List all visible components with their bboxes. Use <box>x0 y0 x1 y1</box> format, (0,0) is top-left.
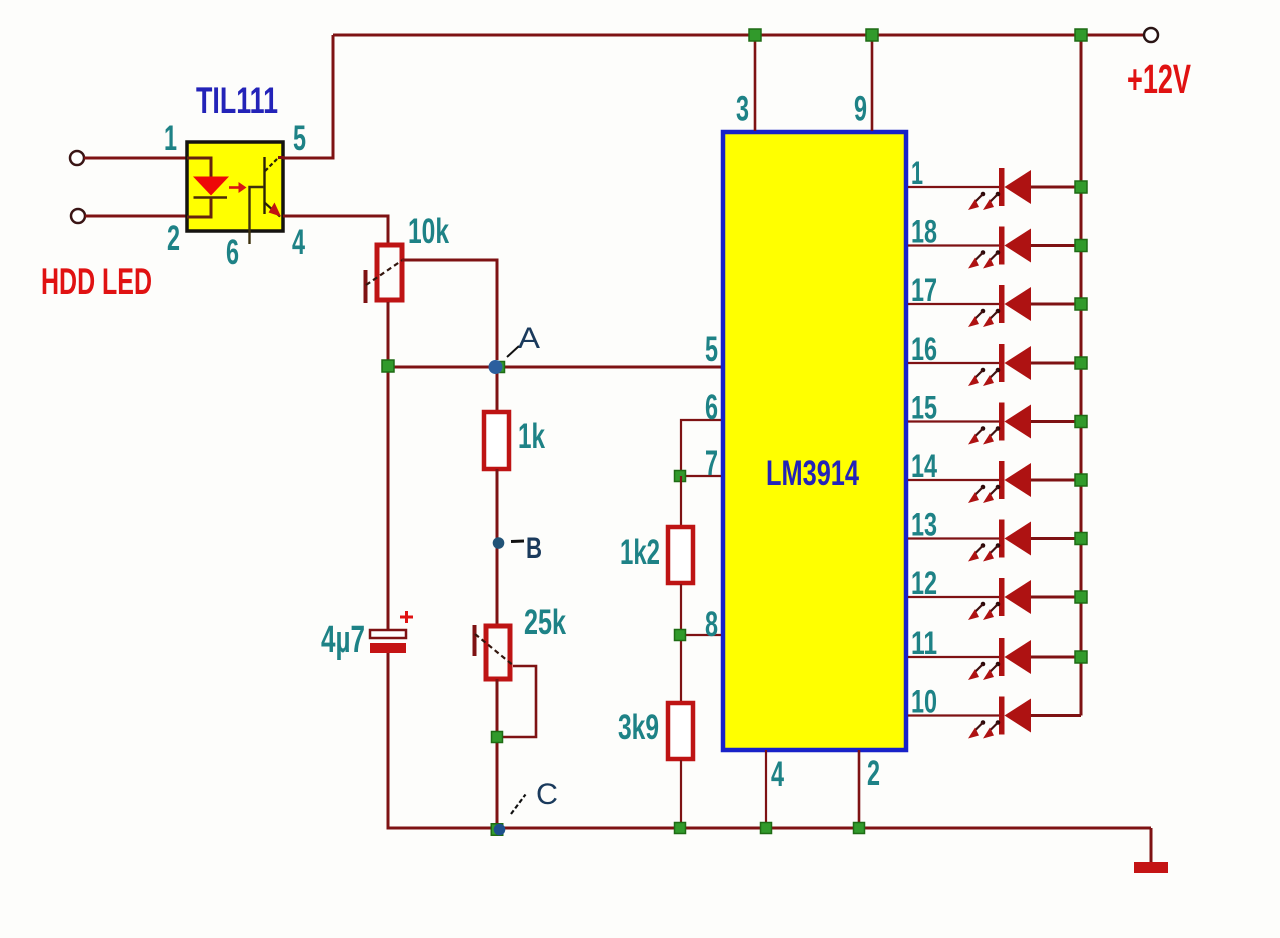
leader node C <box>511 795 526 815</box>
wire pin1 <box>84 157 189 160</box>
svg-text:4µ7: 4µ7 <box>321 619 365 661</box>
wire ground drop <box>1150 828 1153 863</box>
svg-text:1: 1 <box>911 155 923 191</box>
svg-text:10k: 10k <box>408 212 449 251</box>
junction rail LED 15 <box>1075 416 1087 428</box>
wire 1k to 25k <box>496 469 499 626</box>
junction pin 3 rail <box>749 29 761 41</box>
wire 3k9 to ground rail <box>680 760 682 830</box>
wire ground rail <box>388 827 1151 830</box>
wire pin 3 <box>754 35 757 131</box>
LED D1 <box>908 168 1081 210</box>
svg-text:14: 14 <box>911 448 937 484</box>
svg-text:TIL111: TIL111 <box>196 80 278 121</box>
svg-text:C: C <box>536 778 558 811</box>
wire pin 4 <box>765 750 767 830</box>
svg-text:6: 6 <box>226 233 239 272</box>
junction rail LED 12 <box>1075 591 1087 603</box>
wire 25k wiper bypass <box>503 666 536 737</box>
junction rail at pin 2 <box>854 823 865 834</box>
op-to-coupler U1 TIL111 <box>187 142 284 244</box>
junction rail LED 1 <box>1075 181 1087 193</box>
resistor R4 1k2 <box>668 527 693 583</box>
junction 25k bypass <box>492 732 503 743</box>
svg-text:18: 18 <box>911 214 937 250</box>
junction rail LED 16 <box>1075 357 1087 369</box>
wire pin7 down to 1k2 <box>680 476 682 526</box>
LED D7 <box>908 520 1081 562</box>
wire left vertical upper <box>387 302 390 630</box>
junction rail LED 17 <box>1075 298 1087 310</box>
svg-text:4: 4 <box>292 223 305 262</box>
wire opto pin5 to rail <box>283 35 333 158</box>
wire A down to 1k <box>496 367 499 412</box>
LED D5 <box>908 403 1081 445</box>
svg-text:2: 2 <box>167 219 180 258</box>
wire pin 2 <box>858 750 861 830</box>
wire pot wiper to node A <box>402 260 497 360</box>
svg-text:7: 7 <box>705 444 718 483</box>
resistor R5 3k9 <box>668 703 693 759</box>
node B <box>493 537 505 549</box>
svg-text:5: 5 <box>705 330 718 369</box>
junction rail top <box>1075 29 1087 41</box>
leader node B <box>511 540 524 544</box>
svg-text:25k: 25k <box>524 603 566 642</box>
LED D8 <box>908 578 1081 620</box>
svg-text:16: 16 <box>911 331 937 367</box>
svg-text:A: A <box>518 322 540 355</box>
svg-text:11: 11 <box>911 625 937 661</box>
LED D4 <box>908 344 1081 386</box>
svg-text:10: 10 <box>911 684 937 720</box>
wire opto pin4 to pot <box>283 216 388 243</box>
junction rail at 3k9 <box>675 823 686 834</box>
wire pin2 <box>85 215 189 218</box>
svg-text:2: 2 <box>867 754 880 793</box>
wire left vertical lower <box>387 653 390 830</box>
junction rail LED 18 <box>1075 240 1087 252</box>
op-amp U2 LM3914 body <box>723 132 906 750</box>
ground <box>1134 862 1168 873</box>
svg-text:LM3914: LM3914 <box>766 454 859 493</box>
LED D3 <box>908 285 1081 327</box>
svg-text:17: 17 <box>911 272 937 308</box>
terminal HDD LED cathode <box>71 209 85 223</box>
svg-text:9: 9 <box>854 90 867 129</box>
junction left-vertical at A <box>382 360 394 372</box>
svg-text:3k9: 3k9 <box>618 708 659 747</box>
potentiometer R1 10k <box>366 245 405 303</box>
junction rail at pin 4 <box>761 823 772 834</box>
LED D6 <box>908 461 1081 503</box>
junction pin 8 <box>675 630 686 641</box>
wire pin 8 <box>681 634 721 636</box>
potentiometer R3 25k <box>475 625 515 679</box>
wire pin 9 <box>871 35 874 131</box>
terminal +12V <box>1144 28 1158 42</box>
wire +12V top rail <box>333 34 1144 37</box>
svg-text:15: 15 <box>911 390 937 426</box>
svg-text:B: B <box>526 532 542 565</box>
leader node A <box>507 346 519 357</box>
capacitor C1 4u7 <box>370 611 413 653</box>
svg-text:3: 3 <box>736 90 749 129</box>
LED D9 <box>908 638 1081 680</box>
node A junction <box>494 362 505 373</box>
svg-text:13: 13 <box>911 507 937 543</box>
wire node A to pin 5 <box>388 366 721 369</box>
junction pin 9 rail <box>866 29 878 41</box>
LED D10 <box>908 697 1081 739</box>
svg-text:1k2: 1k2 <box>620 533 660 572</box>
junction rail LED 14 <box>1075 474 1087 486</box>
svg-text:1: 1 <box>164 119 177 158</box>
svg-text:12: 12 <box>911 565 937 601</box>
junction rail LED 13 <box>1075 533 1087 545</box>
wire pin 7 <box>681 475 721 477</box>
svg-text:6: 6 <box>705 388 718 427</box>
wire 25k to node C <box>496 679 499 830</box>
node C junction <box>491 824 503 836</box>
svg-text:5: 5 <box>293 119 306 158</box>
wire pin 6 <box>681 420 721 478</box>
LED D2 <box>908 227 1081 269</box>
svg-text:HDD LED: HDD LED <box>41 261 152 302</box>
svg-text:+12V: +12V <box>1127 56 1191 102</box>
wire LED supply rail <box>1080 35 1083 716</box>
resistor R2 1k <box>484 412 509 469</box>
junction pin 7 <box>675 471 686 482</box>
terminal HDD LED anode <box>70 151 84 165</box>
junction rail LED 11 <box>1075 651 1087 663</box>
svg-text:1k: 1k <box>518 417 545 456</box>
wire 1k2 to 3k9 <box>680 584 682 702</box>
svg-text:4: 4 <box>771 755 784 794</box>
svg-text:8: 8 <box>705 605 718 644</box>
